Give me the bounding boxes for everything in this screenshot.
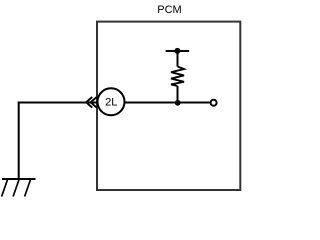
svg-text:PCM: PCM (157, 4, 181, 16)
svg-text:2L: 2L (105, 97, 117, 109)
